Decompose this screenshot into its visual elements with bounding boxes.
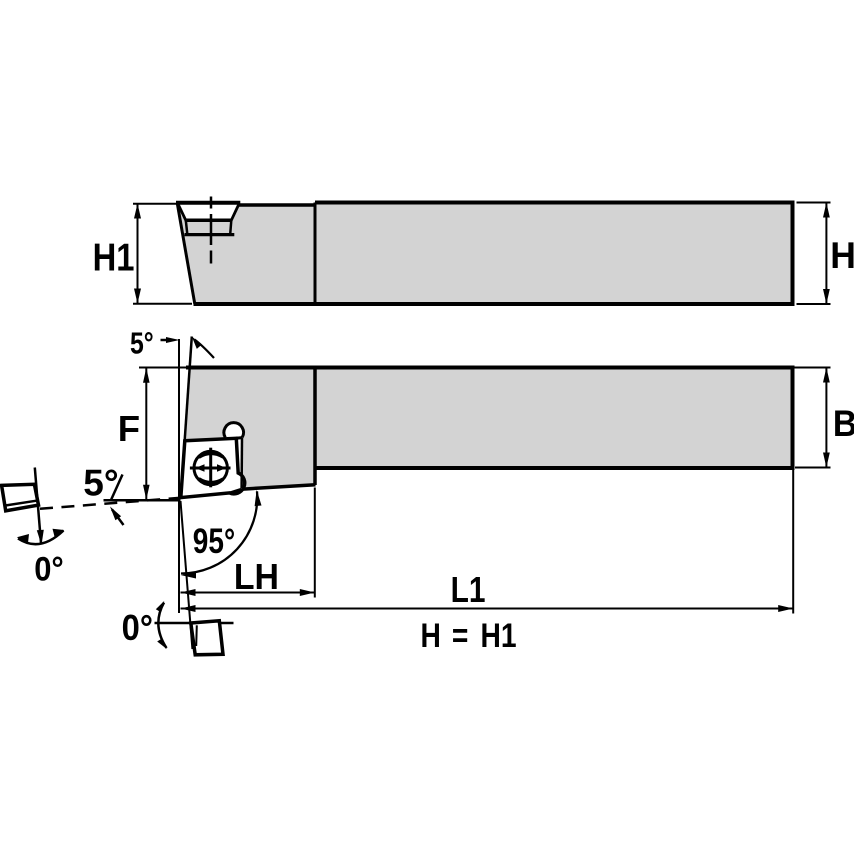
B arrow down xyxy=(823,453,830,468)
svg-text:5°: 5° xyxy=(130,326,154,360)
H dimension extension line bottom xyxy=(797,303,831,305)
LH arrow left xyxy=(181,589,196,596)
5deg left arrow shaft xyxy=(112,510,124,526)
0deg left slant arrow xyxy=(37,530,44,545)
head top edge xyxy=(239,203,315,207)
0deg left arc arrow right xyxy=(53,529,65,538)
insert top edge to wall xyxy=(236,436,242,440)
F extension line top xyxy=(139,367,189,369)
0deg bottom arc arrow top xyxy=(156,601,165,612)
L1 extension line right xyxy=(792,470,794,614)
L1 arrow left xyxy=(181,605,196,612)
5deg left leader upper xyxy=(111,475,123,501)
screw circle xyxy=(194,451,227,484)
0deg bottom arc arrow bottom xyxy=(157,639,167,650)
svg-text:=: = xyxy=(452,617,468,655)
vertical reference line xyxy=(178,339,180,613)
0deg left slant line xyxy=(35,468,41,544)
insert pocket right edge xyxy=(231,204,239,221)
0deg left arc arrow left xyxy=(17,534,29,543)
detached insert side view xyxy=(2,484,39,511)
pocket back wall xyxy=(240,438,243,489)
svg-text:H: H xyxy=(421,617,441,655)
head/shank divider lower xyxy=(313,368,317,486)
shank top edge xyxy=(315,201,793,205)
svg-text:F: F xyxy=(118,408,140,449)
shank right edge xyxy=(791,201,795,307)
95deg arc arrow bottom xyxy=(181,572,196,579)
pocket dome boss xyxy=(224,423,244,438)
LH extension line right xyxy=(314,488,316,598)
LH arrow right xyxy=(300,589,315,596)
svg-text:H1: H1 xyxy=(481,617,517,655)
svg-text:95°: 95° xyxy=(193,521,235,561)
pocket white area xyxy=(181,438,242,498)
F extension line bottom xyxy=(104,499,181,502)
pocket lower right edge xyxy=(230,220,231,234)
bottom insert inner line xyxy=(195,625,198,646)
H dimension line xyxy=(825,203,827,304)
insert top face white fill xyxy=(178,203,239,220)
bottom insert end view xyxy=(191,621,223,655)
svg-text:0°: 0° xyxy=(34,550,64,588)
front slant 5deg line xyxy=(181,337,192,498)
insert pocket left edge xyxy=(178,204,186,221)
screw top arc xyxy=(199,453,223,457)
0deg left arc xyxy=(18,531,64,545)
pocket lower left edge xyxy=(186,220,188,234)
95deg arc xyxy=(181,491,257,573)
H1 dimension extension line bottom xyxy=(133,303,192,305)
F arrow up xyxy=(143,368,150,383)
screw crosshair horizontal xyxy=(190,467,231,470)
body bottom edge xyxy=(194,302,793,306)
H1 dimension extension line top xyxy=(133,203,176,205)
screw left wedge xyxy=(195,464,204,472)
H arrow down xyxy=(823,289,830,304)
5deg left arrow head xyxy=(110,507,121,521)
B arrow up xyxy=(823,368,830,383)
B extension line top xyxy=(795,367,831,369)
insert top edge xyxy=(176,201,240,205)
LH dimension line xyxy=(181,592,315,594)
H1 dimension line xyxy=(137,204,139,303)
head bottom edge xyxy=(241,485,316,490)
B extension line bottom xyxy=(795,467,831,469)
H1 arrow up xyxy=(134,204,141,219)
H arrow up xyxy=(823,203,830,218)
svg-text:L1: L1 xyxy=(451,570,486,610)
5deg top curved arrow tail xyxy=(195,340,215,359)
L1 dimension line xyxy=(181,608,794,610)
B dimension line xyxy=(825,368,827,467)
95deg arc arrow top xyxy=(255,490,262,506)
pocket bottom line xyxy=(185,233,235,236)
insert corner to head bottom connector xyxy=(230,489,242,493)
pocket centerline xyxy=(210,197,213,209)
svg-text:LH: LH xyxy=(234,557,279,597)
body top edge xyxy=(186,366,793,370)
svg-text:B: B xyxy=(833,404,854,445)
head/shank divider xyxy=(314,203,317,305)
holder body lower view gray fill xyxy=(181,368,793,498)
H dimension extension line top xyxy=(797,202,831,204)
svg-text:0°: 0° xyxy=(122,609,153,649)
screw bottom arc xyxy=(199,479,223,483)
svg-text:H: H xyxy=(830,234,854,276)
dashed 5deg line xyxy=(40,498,181,509)
body right edge xyxy=(791,366,795,471)
bottom reference line xyxy=(155,622,234,625)
head front slanted edge xyxy=(177,204,195,305)
shank bottom edge xyxy=(315,466,793,470)
insert mid line xyxy=(185,219,232,223)
screw right wedge xyxy=(217,464,226,472)
H1 arrow down xyxy=(134,289,141,304)
5deg top leader arrow xyxy=(166,337,180,343)
5deg top leader xyxy=(161,339,173,342)
detached insert inner line xyxy=(5,501,37,506)
L1 arrow right xyxy=(778,605,793,612)
F dimension line xyxy=(145,368,147,500)
svg-text:H1: H1 xyxy=(93,235,135,279)
screw crosshair vertical xyxy=(209,448,212,488)
insert C-type outline xyxy=(181,438,245,497)
holder body top view gray fill xyxy=(177,203,793,305)
F arrow down xyxy=(143,485,150,500)
5deg top curved arrow head xyxy=(192,337,202,349)
0deg bottom arc xyxy=(158,603,166,649)
tip slant extension line xyxy=(181,501,193,649)
